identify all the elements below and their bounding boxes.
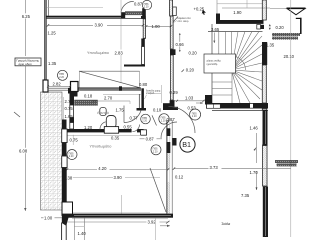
- door leaf WC: [152, 115, 157, 125]
- svg-text:3.92: 3.92: [148, 220, 157, 225]
- svg-text:0.20: 0.20: [189, 50, 198, 55]
- wall hall right upper: [170, 0, 178, 100]
- svg-text:2.20: 2.20: [59, 76, 64, 79]
- window squares right: [257, 25, 264, 30]
- wall hairline left: [44, 0, 46, 80]
- svg-text:0.29: 0.29: [170, 90, 179, 95]
- band segment between columns: [48, 88, 71, 90]
- window tag circle bath: [141, 114, 151, 124]
- svg-text:0.35: 0.35: [111, 135, 120, 140]
- svg-text:1.00: 1.00: [152, 24, 161, 29]
- dim 1.03: [172, 95, 207, 102]
- door arc WC: [161, 122, 177, 138]
- svg-text:οπλ. σκυρ.: οπλ. σκυρ.: [178, 20, 190, 23]
- svg-text:1.90: 1.90: [233, 10, 242, 15]
- left dim chain: [21, 0, 32, 56]
- dim 2.70: [92, 96, 130, 104]
- svg-text:1.35: 1.35: [266, 43, 275, 48]
- svg-text:Υπνοδωμάτιο: Υπνοδωμάτιο: [87, 51, 109, 55]
- svg-text:0.20: 0.20: [186, 68, 195, 73]
- svg-text:1.35: 1.35: [48, 61, 57, 66]
- wall line top inner: [48, 0, 50, 16]
- stair risers upper: [219, 32, 226, 71]
- svg-text:1.70: 1.70: [250, 170, 259, 175]
- dim 1.00 hall: [145, 24, 172, 29]
- svg-text:ημιυπαίθρ.: ημιυπαίθρ.: [207, 63, 219, 66]
- dim 3.65: [211, 27, 220, 43]
- svg-text:6.08: 6.08: [19, 149, 28, 154]
- stair fan: [232, 32, 263, 104]
- svg-text:1.40: 1.40: [78, 231, 87, 236]
- wall below door double: [62, 223, 67, 240]
- wall left lower: [62, 120, 67, 203]
- door arc bedroom top: [121, 1, 134, 12]
- triangle symbol: [270, 8, 306, 15]
- line above bottom wall: [73, 211, 150, 213]
- B1 circle: [180, 137, 195, 152]
- svg-text:Λουτρό: Λουτρό: [97, 111, 109, 115]
- svg-text:2.20: 2.20: [144, 6, 149, 9]
- wall hatch fills: [143, 0, 266, 214]
- svg-text:1.46: 1.46: [250, 126, 259, 131]
- window band main: [78, 88, 142, 90]
- stair bottom column: [205, 95, 212, 105]
- svg-text:0.75: 0.75: [70, 138, 79, 143]
- svg-text:3.65: 3.65: [211, 27, 220, 32]
- door chevron: [62, 216, 69, 226]
- wall interior left x69: [69, 97, 74, 130]
- inner face line below band: [67, 134, 141, 136]
- wall bottom main: [62, 214, 173, 218]
- svg-text:1.03: 1.03: [185, 95, 194, 100]
- note text stair: [174, 17, 192, 23]
- svg-text:0.10: 0.10: [153, 107, 162, 112]
- level mark bracket: [296, 18, 302, 34]
- window tag circle bottom: [67, 150, 77, 160]
- svg-text:Υπνοδωμάτιο: Υπνοδωμάτιο: [90, 144, 112, 148]
- window tag circle hall: [159, 114, 169, 124]
- door box left lower: [62, 202, 73, 215]
- svg-text:2.20: 2.20: [69, 155, 74, 158]
- stairs boundary: [208, 24, 263, 103]
- jamb black left of C2: [68, 88, 71, 94]
- svg-text:1.75: 1.75: [116, 108, 125, 113]
- wall bedroom right: [141, 19, 145, 65]
- wedge triangle window: [79, 71, 140, 88]
- wall horizontal y129 right: [137, 129, 144, 132]
- arrow bottom mid: [160, 225, 170, 227]
- svg-text:0.87: 0.87: [146, 136, 155, 141]
- toilet bowl: [106, 116, 116, 129]
- svg-text:0.12: 0.12: [175, 174, 184, 179]
- svg-text:0.87: 0.87: [167, 117, 176, 122]
- dim 0.66 vertical: [175, 33, 185, 52]
- column C1: [43, 80, 48, 92]
- dim 3.73: [173, 165, 291, 170]
- dim line 3.90: [47, 22, 144, 27]
- svg-text:2.83: 2.83: [115, 51, 124, 56]
- svg-text:4.20: 4.20: [98, 166, 107, 171]
- dim 1.00 bottom left: [41, 215, 62, 220]
- svg-text:0.66: 0.66: [176, 42, 185, 47]
- sink fixture: [100, 108, 106, 116]
- svg-text:1.00: 1.00: [44, 216, 53, 221]
- dim line second bottom: [62, 177, 160, 179]
- wall black L near stairs: [163, 100, 178, 110]
- dim line 2.83 vertical: [114, 0, 125, 83]
- svg-text:Σκάλα: Σκάλα: [222, 222, 231, 226]
- wall horizontal y129 left: [62, 129, 132, 132]
- svg-text:6.25: 6.25: [22, 14, 31, 19]
- jamb top window: [121, 12, 125, 18]
- wall bath right vertical: [137, 88, 147, 110]
- svg-text:εποξειδ.: εποξειδ.: [146, 92, 155, 95]
- window tag circle mid: [151, 145, 161, 155]
- dim 2.82: [47, 81, 71, 87]
- band jamb: [119, 86, 122, 91]
- stair text box: [204, 54, 236, 73]
- svg-text:20.10: 20.10: [284, 54, 295, 59]
- inner face line: [103, 93, 141, 95]
- svg-text:2.70: 2.70: [104, 96, 113, 101]
- crosshatch label right lower: [275, 160, 298, 166]
- line below bottom wall: [72, 218, 168, 220]
- wall corner NE bedroom: [142, 8, 146, 19]
- svg-text:2.20: 2.20: [161, 120, 166, 123]
- dim 4.20: [66, 166, 169, 171]
- toilet tank: [104, 127, 118, 134]
- left label box: [15, 58, 41, 66]
- stair landing wall: [206, 103, 268, 109]
- window sill top: [125, 12, 143, 15]
- long dim line right: [290, 0, 292, 237]
- dim chain right arrows: [254, 133, 258, 190]
- wall left exterior top: [44, 0, 46, 81]
- wall top right segment: [141, 16, 146, 19]
- arrow mark stair left: [196, 102, 203, 104]
- svg-text:7.35: 7.35: [241, 193, 250, 198]
- column C2: [71, 82, 79, 92]
- thin vline x155 bottom: [154, 218, 156, 240]
- svg-text:3.90: 3.90: [114, 175, 123, 180]
- wall stub below band: [141, 130, 147, 135]
- level mark +0.25 with cursor: [194, 6, 207, 14]
- svg-text:0.55: 0.55: [124, 124, 133, 129]
- door arc bath: [124, 111, 141, 123]
- roof line top: [47, 7, 103, 9]
- wall right column: [262, 0, 268, 237]
- svg-text:0.87: 0.87: [134, 2, 143, 7]
- wall hairline bottom: [74, 215, 171, 217]
- block below C2: [70, 92, 78, 97]
- svg-text:1.20: 1.20: [84, 125, 93, 130]
- dim 3.92: [67, 219, 170, 224]
- note text bath: [145, 90, 162, 100]
- porch lines bottom: [74, 218, 84, 240]
- svg-text:0.18: 0.18: [84, 94, 93, 99]
- dim 3.90 second: [113, 175, 125, 180]
- svg-text:0.77: 0.77: [130, 116, 139, 121]
- planter grid strip left: [41, 92, 63, 210]
- door arc small WC2: [133, 125, 140, 132]
- wall hairline right1: [264, 111, 266, 144]
- thin vline x121 bottom: [120, 195, 122, 214]
- dim 0.87 lower: [140, 136, 163, 141]
- window tag circle left: [58, 70, 68, 80]
- svg-text:όριο οδού: όριο οδού: [19, 62, 33, 66]
- svg-text:2.20: 2.20: [192, 115, 197, 118]
- svg-text:2.20: 2.20: [142, 120, 147, 123]
- wall stub hall bottom: [172, 138, 177, 146]
- dim line vertical left chain: [63, 97, 65, 126]
- dim 20.10: [283, 54, 299, 59]
- door arc bath inner: [100, 122, 106, 130]
- svg-text:0.20: 0.20: [276, 25, 285, 30]
- wall hairline right2: [265, 187, 267, 236]
- crosshatch label box window: [75, 100, 98, 105]
- svg-text:2.82: 2.82: [53, 81, 62, 86]
- svg-text:3.73: 3.73: [210, 165, 219, 170]
- svg-text:2.20: 2.20: [153, 150, 158, 153]
- door arc B1 semicircle: [169, 107, 196, 134]
- svg-text:3.90: 3.90: [95, 23, 104, 28]
- left dim lower: [18, 66, 31, 211]
- svg-text:B1: B1: [182, 140, 191, 149]
- dim 0.20 right: [269, 24, 285, 30]
- top right room: [216, 0, 264, 24]
- stair treads lower left: [212, 70, 232, 103]
- door sill bedroom: [124, 65, 145, 67]
- tick mark slope: [14, 112, 20, 117]
- crosshatch label right top: [272, 33, 300, 40]
- dim 0.20 second: [182, 68, 195, 73]
- svg-text:1.25: 1.25: [48, 30, 57, 35]
- diagonal bottom room: [150, 168, 166, 212]
- window tag circle B1: [190, 109, 201, 120]
- dim 1.38: [63, 175, 73, 180]
- dim 0.75 bottom: [70, 135, 79, 145]
- wall bottom room right: [166, 120, 172, 214]
- dim 1.90: [222, 0, 270, 15]
- wall top bedroom: [47, 16, 144, 19]
- window tag circle top: [142, 0, 151, 9]
- svg-text:0.75: 0.75: [65, 106, 74, 111]
- svg-text:0.80: 0.80: [139, 82, 148, 87]
- door leaf bath: [123, 106, 125, 123]
